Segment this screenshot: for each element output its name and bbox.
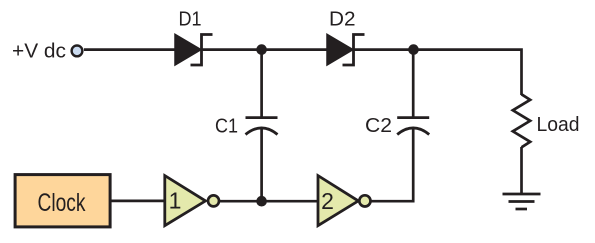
inverter U2 [318, 176, 371, 226]
svg-text:C1: C1 [215, 116, 238, 138]
svg-text:D2: D2 [329, 8, 356, 30]
wire: node B to load resistor [414, 50, 522, 95]
wire: +V dc terminal to D1 anode [84, 48, 176, 51]
svg-text:+V dc: +V dc [12, 41, 66, 63]
diode D2 (Schottky) [327, 34, 365, 65]
capacitor C2 [397, 118, 429, 135]
svg-text:Load: Load [537, 114, 580, 136]
svg-text:2: 2 [321, 188, 334, 214]
junction node A (D1/D2/C1) [256, 44, 267, 55]
terminal +V dc [72, 46, 83, 57]
wire: node A to D2 anode [262, 48, 328, 51]
junction node C (C1 bottom / U1-U2 link) [256, 196, 267, 207]
wire: node A down to C1 top plate [260, 50, 263, 117]
junction node B (D2/C2/load) [408, 44, 419, 55]
wire: U1 output to node C to U2 input [219, 200, 318, 203]
wire: clock to inverter U1 input [111, 200, 165, 203]
svg-text:C2: C2 [365, 115, 392, 137]
resistor Load [513, 94, 530, 147]
wire: D1 cathode to node A [202, 48, 262, 51]
svg-text:1: 1 [169, 188, 182, 214]
clock box [15, 175, 110, 227]
svg-text:D1: D1 [179, 8, 202, 30]
svg-text:Clock: Clock [38, 189, 86, 217]
ground [503, 194, 541, 209]
inverter U1 [165, 176, 219, 226]
wire: node B down to C2 top plate [412, 50, 415, 117]
diode D1 (Schottky) [175, 34, 213, 65]
wire: D2 cathode to node B [354, 48, 414, 51]
wire: C2 bottom plate down and left to U2 output [371, 129, 413, 202]
wire: C1 bottom plate to node C [260, 129, 263, 202]
capacitor C1 [246, 118, 278, 135]
wire: load resistor to ground [520, 147, 523, 194]
